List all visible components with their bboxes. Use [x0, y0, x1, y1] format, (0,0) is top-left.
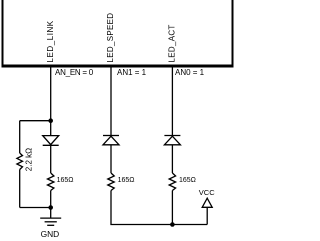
resistor R3 165 Ohm zigzag — [169, 173, 175, 191]
node junction dot bottom rail at LED_ACT branch — [170, 222, 175, 227]
wire left loop top horizontal — [20, 120, 51, 122]
svg-text:LED_LINK: LED_LINK — [46, 20, 55, 62]
wire left loop left vertical (upper lead of 2.2k) — [19, 121, 21, 153]
wire left loop bottom horizontal — [20, 207, 51, 209]
wire left loop left vertical (lower lead of 2.2k) — [19, 170, 21, 208]
svg-text:AN_EN = 0: AN_EN = 0 — [55, 68, 94, 77]
svg-text:165Ω: 165Ω — [118, 177, 135, 184]
LED D2 (cathode up) — [103, 136, 119, 145]
node junction dot top of left parallel branch — [48, 118, 53, 123]
svg-text:AN1 = 1: AN1 = 1 — [117, 68, 147, 77]
svg-text:LED_SPEED: LED_SPEED — [106, 13, 115, 63]
wire pin LED_ACT vertical segment — [171, 68, 173, 136]
LED D3 (cathode up) — [164, 136, 180, 145]
wire between D1 and R1 — [50, 145, 52, 173]
wire between D3 and R3 — [171, 145, 173, 173]
resistor R1 165 Ohm zigzag — [48, 173, 54, 191]
wire pin LED_LINK vertical segment — [50, 68, 52, 136]
ground symbol — [40, 208, 61, 226]
node junction dot bottom of left parallel branch — [48, 205, 53, 210]
resistor 2.2 kOhm zigzag — [17, 153, 23, 170]
power VCC symbol (open triangle with stub) — [202, 198, 212, 224]
wire R3 down to bottom rail — [171, 191, 173, 225]
svg-text:165Ω: 165Ω — [57, 177, 74, 184]
svg-text:AN0 = 1: AN0 = 1 — [175, 68, 205, 77]
wire between D2 and R2 — [110, 145, 112, 173]
svg-text:165Ω: 165Ω — [179, 177, 196, 184]
IC U1 module outline (left edge, right edge, thick bottom bar) — [2, 0, 234, 68]
svg-text:LED_ACT: LED_ACT — [168, 24, 177, 62]
svg-text:2.2 kΩ: 2.2 kΩ — [24, 148, 33, 171]
resistor R2 165 Ohm zigzag — [108, 173, 114, 191]
LED D1 (cathode down) — [43, 136, 59, 146]
wire pin LED_SPEED vertical segment — [110, 68, 112, 136]
wire R1 to bottom junction — [50, 191, 52, 208]
wire R2 down to bottom rail corner — [111, 191, 207, 225]
svg-text:GND: GND — [41, 229, 60, 239]
svg-text:VCC: VCC — [199, 188, 215, 197]
